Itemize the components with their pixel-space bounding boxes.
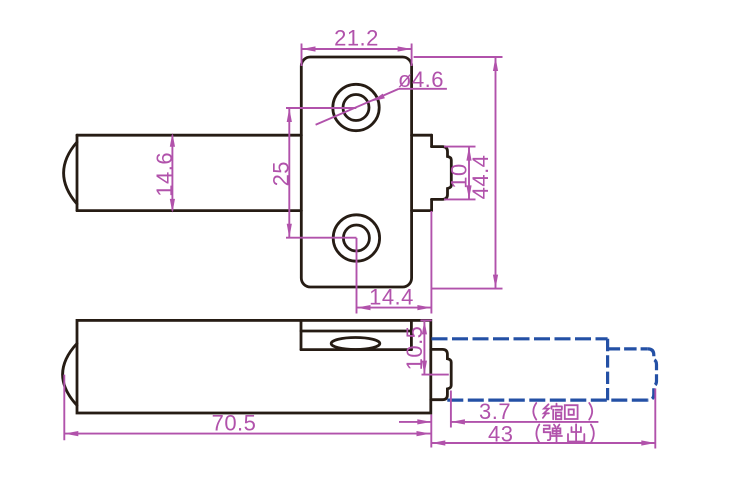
dim 10 extension line top <box>444 146 476 148</box>
svg-text:3.7: 3.7 <box>479 399 511 424</box>
arrowhead 14.6 bottom <box>170 199 175 213</box>
arrowhead 10 top <box>466 147 471 161</box>
lower hole outer circle <box>333 215 379 261</box>
body top view: plunger bump with rubber tip bulge <box>432 147 452 200</box>
arrowhead 10.5 bottom <box>422 361 427 375</box>
body side view: outline <box>77 320 431 413</box>
dim 10.5 dimension line <box>423 320 425 374</box>
arrowhead 3.7 left <box>417 419 431 424</box>
dim 10 dimension line <box>468 147 470 200</box>
dim 25 leader to upper hole center <box>286 107 356 109</box>
extended plunger tip top (dashed blue) <box>608 347 648 350</box>
upper hole outer circle <box>333 84 379 130</box>
arrowhead 70.5 right <box>417 431 431 436</box>
arrowhead dia4.6 leader <box>371 94 385 102</box>
dim 70.5 extension line left <box>63 375 65 441</box>
dim 43 dimension line <box>431 442 655 444</box>
fullwidth paren open (suohui) <box>533 403 536 420</box>
svg-text:43: 43 <box>488 422 513 447</box>
dia 4.6 text underline <box>399 88 447 90</box>
svg-text:10.5: 10.5 <box>402 326 427 371</box>
arrowhead 14.4 left <box>357 305 371 310</box>
extended plunger bottom (dashed blue) <box>447 399 648 402</box>
arrowhead 3.7 right <box>451 419 465 424</box>
svg-text:14.4: 14.4 <box>369 285 414 310</box>
dim 21.2 extension line right <box>411 44 413 67</box>
CJK char hui (return) <box>565 405 578 419</box>
side view slot window left edge <box>300 320 303 349</box>
CJK char suo (retract) <box>543 404 562 420</box>
arrowhead 44.4 top <box>493 57 498 71</box>
dim 14.4 dimension line <box>357 307 432 309</box>
arrowhead 10.5 top <box>422 320 427 334</box>
dim 14.6 dimension line <box>171 135 173 210</box>
arrowhead 14.6 top <box>170 133 175 147</box>
arrowhead 25 top <box>287 108 292 122</box>
dim 14.4 extension line right <box>430 211 432 314</box>
svg-text:70.5: 70.5 <box>212 411 257 436</box>
side view slot window bottom edge <box>301 348 411 351</box>
dim 44.4 extension line bottom <box>432 288 503 290</box>
side view slot window right edge <box>410 320 413 349</box>
extended plunger tip right edge with bulge (dashed blue) <box>648 349 657 400</box>
arrowhead 44.4 bottom <box>493 275 498 289</box>
arrowhead 21.2 right <box>398 46 412 51</box>
shared extension line at body right edge <box>430 415 432 448</box>
dim 3.7 left helper line <box>399 421 431 423</box>
extended plunger rod top (dashed blue) <box>432 337 608 340</box>
dim 3.7 extension line right <box>450 391 452 428</box>
side view plunger bump with rubber tip bulge <box>431 349 451 399</box>
dim 70.5 dimension line <box>64 433 430 435</box>
svg-text:ø4.6: ø4.6 <box>398 67 444 92</box>
dim 10.5 extension tick top <box>420 319 431 321</box>
svg-text:25: 25 <box>269 161 294 186</box>
dim 25 dimension line <box>288 108 290 238</box>
dim 10.5 extension line bottom <box>422 374 449 376</box>
fullwidth paren open (tanchu) <box>536 425 539 443</box>
svg-text:44.4: 44.4 <box>468 155 493 200</box>
CJK char chu (out) <box>568 424 584 441</box>
body top view: left end cap arc <box>64 142 77 204</box>
svg-text:14.6: 14.6 <box>152 152 177 197</box>
arrowhead 70.5 left <box>64 431 78 436</box>
arrowhead 43 right <box>641 440 655 445</box>
side view slot window inner line <box>301 330 411 333</box>
arrowhead 10 bottom <box>466 185 471 199</box>
lower hole inner circle <box>343 225 369 251</box>
upper hole inner circle <box>343 95 369 121</box>
arrowhead 14.4 right <box>417 305 431 310</box>
dim 44.4 extension line top <box>414 56 503 58</box>
arrowhead 25 bottom <box>287 224 292 238</box>
dim 3.7 dimension/under line <box>451 421 599 423</box>
side view slot ellipse <box>331 338 380 350</box>
dim 21.2 extension line left <box>301 44 303 67</box>
arrowhead 43 left <box>431 440 445 445</box>
fullwidth paren close (suohui) <box>589 403 592 420</box>
dim 43 extension line right <box>654 389 656 449</box>
body top view: outline <box>77 135 432 210</box>
dia 4.6 leader line <box>316 89 399 125</box>
mounting plate top view <box>301 57 411 287</box>
dim 14.4 extension line left <box>356 238 358 314</box>
arrowhead 21.2 left <box>302 46 316 51</box>
dim 10 extension line bottom <box>444 198 476 200</box>
fullwidth paren close (tanchu) <box>591 425 594 443</box>
dim 44.4 dimension line <box>495 57 497 289</box>
extended plunger rod/tip seam (dashed blue) <box>606 339 609 401</box>
CJK char tan (eject) <box>544 425 562 442</box>
dim 25 leader to lower hole center <box>286 237 357 239</box>
body side view: left end cap arc <box>63 343 77 405</box>
dim 21.2 dimension line <box>302 48 412 50</box>
svg-text:21.2: 21.2 <box>334 26 379 51</box>
